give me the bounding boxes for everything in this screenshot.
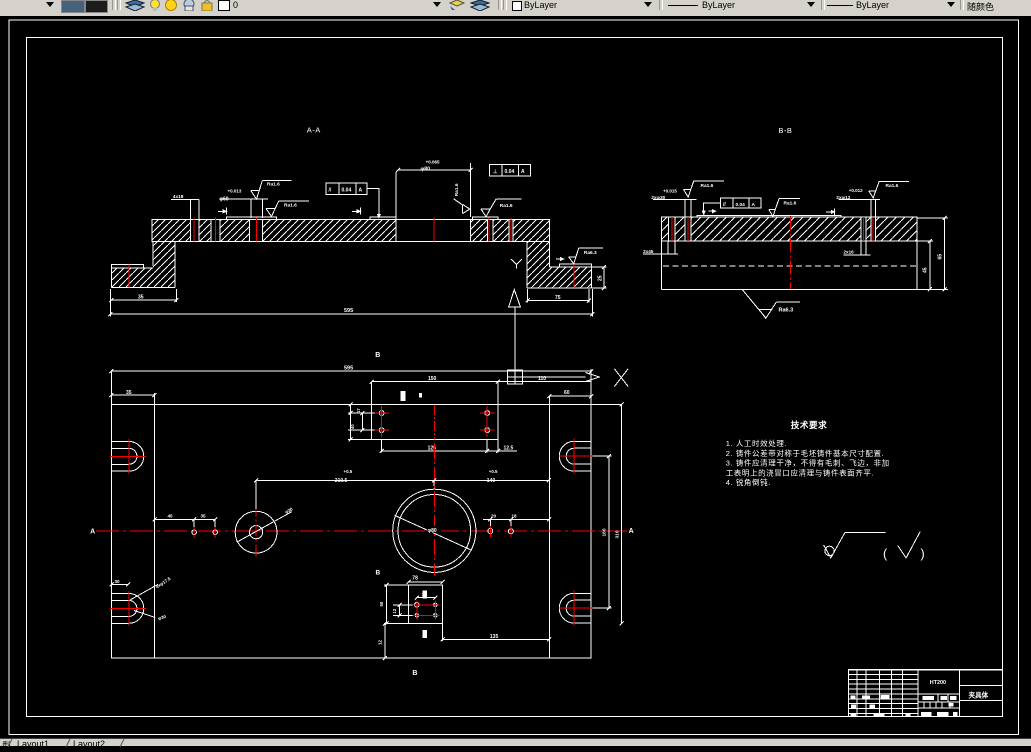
plan right pair holes [488, 526, 514, 538]
plan dims 45 35 left [153, 513, 217, 527]
A-A left foot hole red line [128, 265, 130, 288]
A-A parallelism frame //|0.04|A [326, 183, 380, 218]
plan bottom pocket left dims [379, 583, 412, 626]
svg-text:Ra6.3: Ra6.3 [584, 250, 597, 256]
plan big circle diameter line and label [395, 515, 472, 550]
plan bottom pocket [409, 585, 443, 624]
plan dim 78 [407, 575, 445, 584]
svg-text:A: A [90, 529, 95, 536]
svg-text:35: 35 [138, 295, 144, 301]
title block small text blobs [851, 695, 958, 716]
svg-text:B: B [412, 670, 417, 677]
svg-text:+0.5: +0.5 [344, 469, 353, 474]
A-A dim phi80 +0.065 [396, 159, 473, 218]
A-A right foot hole red line [573, 264, 575, 288]
A-A left foot lip [111, 264, 153, 268]
svg-text:HT200: HT200 [930, 680, 946, 686]
plan dim 595 top [109, 366, 593, 374]
bottom layout tabs [0, 738, 1031, 746]
plan dim 60 top-right [547, 369, 593, 398]
plan B section mark top [375, 352, 422, 401]
B-B bottom leader Ra6.3 [742, 289, 800, 318]
svg-text:⊥: ⊥ [493, 169, 498, 175]
svg-text:595: 595 [344, 366, 353, 372]
svg-text:B-B: B-B [778, 126, 792, 135]
A-A left foot (hatched) [111, 264, 174, 287]
svg-text:A-A: A-A [307, 125, 321, 134]
B-B dim 2x16 counterbore right [844, 249, 871, 254]
svg-text:工表明上的浇冒口应清理与铸件表面齐平.: 工表明上的浇冒口应清理与铸件表面齐平. [726, 467, 874, 477]
A-A left column (hatched) [153, 241, 175, 287]
svg-text:45: 45 [168, 513, 174, 518]
A-A small thickness arrow mid [352, 208, 360, 215]
plan slot top-left [110, 439, 146, 474]
svg-text:2. 铸件公差带对称于毛坯铸件基本尺寸配置.: 2. 铸件公差带对称于毛坯铸件基本尺寸配置. [726, 448, 885, 458]
svg-text:Ra1.6: Ra1.6 [500, 203, 513, 209]
svg-text:A: A [521, 169, 525, 175]
A-A surface finish Ra1.6 #2 [266, 201, 309, 217]
svg-text:40: 40 [350, 424, 355, 429]
svg-text:135: 135 [490, 634, 499, 640]
technical requirements text [726, 438, 890, 487]
svg-text:35: 35 [201, 513, 207, 518]
svg-text:595: 595 [344, 308, 353, 314]
B-B dim 2x45 counterbore left [643, 249, 678, 254]
technical requirements title [791, 419, 827, 430]
roughness legend parenthesized symbol [883, 531, 925, 561]
svg-text:2x45: 2x45 [643, 249, 654, 254]
svg-text:17: 17 [356, 408, 361, 413]
plan dim 210 +0.5 [254, 469, 436, 509]
plan dim 110 [496, 376, 591, 404]
A-A surface finish Ra1.6 #3 [481, 199, 522, 217]
plan inner top line [111, 403, 621, 405]
svg-text:20: 20 [491, 513, 497, 518]
A-A top flange hatched band [152, 220, 549, 242]
A-A right column (hatched) [527, 241, 550, 288]
svg-text:): ) [921, 547, 925, 561]
UCS icon origin box [508, 370, 523, 384]
svg-text:Ra1.6: Ra1.6 [284, 203, 297, 209]
svg-text:φ80: φ80 [428, 528, 437, 534]
A-A perpendicularity frame [490, 164, 531, 176]
title block part name [969, 691, 989, 700]
plan bottom pocket red lines [413, 601, 440, 620]
B-B top flange hatched band [662, 217, 918, 241]
plan big circle red vertical centerline [433, 405, 435, 576]
svg-text:A: A [629, 528, 634, 535]
B-B small thickness arrow left [708, 210, 715, 213]
svg-text:2x16: 2x16 [844, 249, 855, 254]
plan small circle leader phi30 [237, 506, 294, 542]
svg-text:12: 12 [392, 608, 397, 613]
svg-text:技术要求: 技术要求 [791, 419, 827, 430]
svg-text:12: 12 [378, 640, 383, 645]
plan dim 30 bottom-left [109, 579, 130, 586]
svg-text:0.04: 0.04 [736, 202, 746, 208]
B-B dim 2xphi30 +0.015 [651, 188, 697, 217]
svg-text:25: 25 [598, 275, 604, 281]
svg-text:B: B [375, 352, 380, 359]
A-A rotated Ra1.6 on bore wall [454, 183, 470, 213]
svg-text:0.04: 0.04 [505, 169, 515, 175]
plan section label A right [629, 528, 634, 535]
plan dim 135 [441, 624, 552, 642]
B-B lip plate on flange top [697, 215, 841, 217]
plan dim 150 [370, 376, 500, 404]
svg-text:12.5: 12.5 [504, 445, 514, 451]
svg-text:B: B [376, 570, 381, 577]
plan top pocket rectangle [372, 404, 498, 439]
svg-text:+0.015: +0.015 [663, 188, 677, 193]
plan dim 35 top-left [109, 390, 156, 397]
svg-text:1. 人工时效处理.: 1. 人工时效处理. [726, 438, 787, 448]
svg-text:150: 150 [428, 376, 437, 382]
title block text HT200 [930, 680, 946, 686]
roughness legend main symbol [824, 532, 886, 558]
plan slot bottom-left [110, 591, 146, 626]
plan dim 140 +0.5 [434, 469, 551, 486]
plan small circle [235, 511, 277, 553]
plan dim 12 bottom-left of pocket [378, 622, 387, 661]
plan pocket left small dims [348, 402, 375, 441]
svg-text:Ra1.6: Ra1.6 [784, 200, 797, 206]
svg-text:夹具体: 夹具体 [969, 691, 989, 700]
A-A surface finish Ra1.6 #1 [251, 181, 292, 200]
A-A surface finish Ra6.3 right foot [556, 248, 603, 264]
svg-text:Ra1.6: Ra1.6 [701, 183, 714, 189]
plan inner wall line right [548, 396, 550, 658]
UCS X axis arrow [522, 373, 599, 382]
svg-text:0.04: 0.04 [342, 188, 352, 194]
UCS Y axis arrow [509, 290, 521, 370]
A-A dim 35 left foot [109, 289, 178, 302]
svg-text:A: A [359, 188, 363, 194]
svg-text:2xφ12: 2xφ12 [836, 195, 850, 201]
plan B section mark mid [376, 570, 428, 599]
svg-text:310: 310 [614, 530, 620, 538]
UCS Y letter [511, 259, 522, 269]
plan dims 20 18 right [483, 513, 551, 526]
svg-text:Ra1.6: Ra1.6 [267, 181, 280, 187]
svg-text:4. 锐角倒钝.: 4. 锐角倒钝. [726, 477, 771, 487]
plan slot bottom-right [559, 591, 612, 626]
svg-text:140: 140 [487, 478, 496, 484]
B-B body outline [662, 241, 918, 289]
B-B parallelism frame [702, 198, 761, 214]
plan dim 180 right [592, 454, 611, 610]
svg-text:30: 30 [115, 579, 121, 584]
title block [849, 670, 1003, 717]
A-A dim 25 right height [592, 265, 607, 290]
B-B surface finish Ra1.6 mid [769, 199, 800, 217]
svg-text:+0.065: +0.065 [426, 159, 440, 164]
B-B counterbore lines left [668, 241, 675, 254]
plan left pair holes [192, 527, 218, 539]
B-B small thickness arrow right [826, 208, 834, 215]
A-A dim phi60 +0.013 [219, 189, 268, 218]
svg-text:60: 60 [564, 390, 570, 396]
plan leader 4xphi17.5 [130, 576, 172, 600]
plan outer rectangle [111, 371, 591, 658]
svg-text:Ra6.3: Ra6.3 [779, 307, 794, 313]
plan slot top-right [559, 439, 612, 474]
A-A hole section red lines [194, 218, 511, 242]
svg-text:35: 35 [126, 390, 132, 396]
plan section label A left [90, 529, 95, 536]
svg-text:75: 75 [555, 295, 561, 301]
svg-text:+0.012: +0.012 [849, 188, 863, 193]
svg-text:210.5: 210.5 [335, 478, 348, 484]
plan dim 12.5 [487, 439, 517, 453]
svg-text:180: 180 [602, 528, 608, 536]
B-B hidden dashed line [663, 265, 916, 267]
A-A view title [307, 125, 321, 134]
svg-text:Ra1.6: Ra1.6 [886, 183, 899, 189]
B-B hole section red lines [672, 217, 873, 241]
plan bottom pocket hole spacing dim [415, 592, 438, 600]
plan red main centerline A-A [96, 530, 627, 532]
plan big circle [393, 489, 476, 572]
B-B dim 45 right [917, 239, 933, 291]
A-A dim 75 right foot [526, 289, 591, 303]
A-A right foot (hatched) [527, 264, 591, 288]
A-A raised lip plates on flange top [226, 217, 498, 220]
svg-text:65: 65 [937, 254, 943, 260]
svg-text:50: 50 [379, 601, 384, 606]
plan bottom pocket holes [415, 603, 437, 618]
B-B red centerline [790, 217, 792, 289]
svg-text:A: A [752, 202, 756, 208]
A-A right foot lip [549, 264, 591, 267]
B-B counterbore lines right [861, 241, 866, 255]
B-B dim 65 right [917, 216, 948, 291]
svg-text:78: 78 [412, 575, 418, 581]
B-B dim 2xphi12 +0.012 [836, 188, 880, 217]
plan B section mark bottom [412, 630, 427, 677]
toolbar [0, 0, 1031, 16]
B-B view title [778, 126, 792, 135]
A-A dim 595 bottom [108, 289, 594, 317]
plan dim 125 [380, 439, 490, 453]
plan leader phi30 counterbore [134, 611, 167, 621]
svg-text:18: 18 [512, 513, 518, 518]
svg-text:+0.013: +0.013 [228, 189, 242, 194]
svg-text:+0.5: +0.5 [489, 469, 498, 474]
plan top pocket red centerlines [375, 406, 495, 437]
plan inner wall line left [154, 393, 156, 658]
svg-text:Ra1.6: Ra1.6 [454, 183, 460, 196]
plan dim 310 right [614, 402, 623, 625]
B-B surface finish Ra1.6 left [684, 181, 724, 197]
svg-text:3. 铸件应清理干净，不得有毛刺、飞边，非加: 3. 铸件应清理干净，不得有毛刺、飞边，非加 [726, 458, 890, 468]
UCS X letter [614, 369, 628, 387]
plan top pocket holes [379, 411, 489, 433]
B-B surface finish Ra1.6 right [869, 181, 909, 198]
A-A small thickness arrow left [218, 208, 226, 215]
A-A dim 4x18 callout [171, 194, 199, 220]
svg-text:45: 45 [923, 267, 929, 273]
plan small circle red vertical centerline [255, 505, 257, 557]
